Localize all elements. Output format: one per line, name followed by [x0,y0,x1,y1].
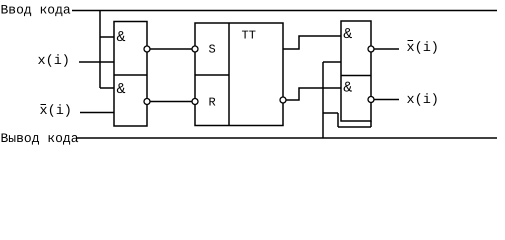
svg-text:х(i): х(i) [38,54,70,69]
svg-text:&: & [117,29,126,46]
svg-text:ТТ: ТТ [242,28,256,42]
svg-text:Ввод кода: Ввод кода [1,3,71,18]
svg-text:х(i): х(i) [40,104,72,119]
svg-text:Вывод кода: Вывод кода [1,131,79,146]
svg-text:S: S [209,43,216,57]
svg-text:&: & [343,79,352,96]
svg-text:R: R [209,95,216,109]
svg-text:х(i): х(i) [407,41,439,56]
svg-text:х(i): х(i) [407,93,439,108]
svg-text:&: & [343,26,352,43]
svg-text:&: & [117,81,126,98]
